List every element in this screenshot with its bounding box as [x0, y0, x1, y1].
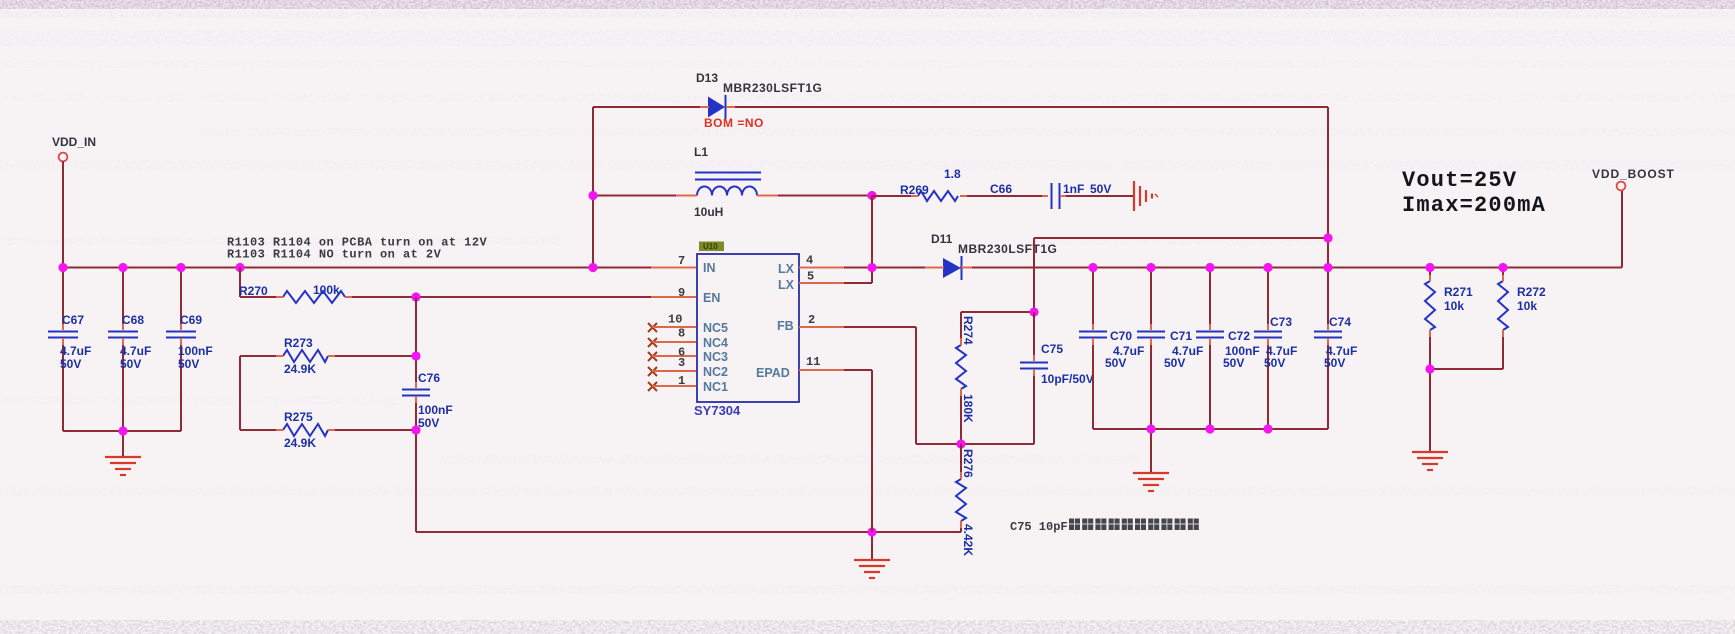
- svg-text:EN: EN: [703, 291, 720, 305]
- node main-C69: [176, 263, 185, 272]
- svg-text:VDD_IN: VDD_IN: [52, 135, 96, 149]
- svg-text:NC4: NC4: [703, 336, 728, 350]
- wire cap bank ground stem: [1150, 429, 1152, 473]
- svg-text:50V: 50V: [60, 357, 81, 371]
- wire LX pin4 main: [799, 267, 945, 269]
- node bottom bus EPAD: [867, 527, 876, 536]
- svg-text:MBR230LSFT1G: MBR230LSFT1G: [958, 242, 1057, 256]
- diode D13: [696, 71, 822, 119]
- capacitor C67: [48, 313, 91, 371]
- svg-text:Vout=25V: Vout=25V: [1402, 168, 1517, 193]
- wire VDD_BOOST stub: [1621, 190, 1623, 268]
- capacitor C71: [1137, 267, 1203, 429]
- svg-text:C71: C71: [1170, 329, 1192, 343]
- svg-text:R1103 R1104 NO turn on at 2V: R1103 R1104 NO turn on at 2V: [227, 248, 442, 262]
- wire C67 lower: [62, 338, 64, 431]
- text note C75: [1010, 519, 1199, 535]
- wire C69 lower: [180, 338, 182, 431]
- resistor R271: [1425, 267, 1473, 369]
- svg-text:NC2: NC2: [703, 365, 728, 379]
- svg-text:50V: 50V: [1324, 356, 1345, 370]
- svg-text:C73: C73: [1270, 315, 1292, 329]
- wire C68 lower: [122, 338, 124, 431]
- capacitor C74: [1314, 267, 1357, 429]
- resistor R273: [240, 336, 416, 376]
- wire FB tap vertical: [1033, 238, 1035, 312]
- svg-text:BOM =NO: BOM =NO: [704, 116, 764, 130]
- svg-text:7: 7: [678, 254, 685, 268]
- text Vout Imax: [1402, 168, 1546, 218]
- pin stub IN: [651, 267, 696, 269]
- node EN-R270: [411, 292, 420, 301]
- capacitor C68: [108, 313, 151, 371]
- svg-text:4.7uF: 4.7uF: [60, 344, 91, 358]
- node bypass-main left: [588, 263, 597, 272]
- svg-text:50V: 50V: [1090, 182, 1111, 196]
- pin 10 NC5: [648, 313, 696, 333]
- wire R270 stub down: [239, 267, 241, 297]
- wire input cap ground bus: [63, 430, 181, 432]
- text note R1103: [227, 236, 487, 262]
- svg-text:100nF: 100nF: [178, 344, 213, 358]
- wire top bypass right vertical: [1327, 107, 1329, 267]
- wire L1 right: [757, 195, 872, 197]
- node main C71: [1146, 263, 1155, 272]
- wire FB divider vertical: [415, 297, 417, 532]
- pin stub EN: [651, 296, 696, 298]
- ground R271: [1412, 452, 1448, 470]
- svg-text:NC1: NC1: [703, 380, 728, 394]
- svg-text:NC5: NC5: [703, 321, 728, 335]
- port VDD_IN: [52, 135, 96, 161]
- svg-text:C75: C75: [1041, 342, 1063, 356]
- svg-text:D11: D11: [931, 232, 953, 246]
- svg-text:MBR230LSFT1G: MBR230LSFT1G: [723, 81, 822, 95]
- svg-text:VDD_BOOST: VDD_BOOST: [1592, 167, 1675, 181]
- node main R272: [1498, 263, 1507, 272]
- wire top bypass left vertical: [592, 107, 594, 267]
- wire EN net: [416, 296, 696, 298]
- svg-text:Imax=200mA: Imax=200mA: [1402, 193, 1546, 218]
- svg-text:C70: C70: [1110, 329, 1132, 343]
- wire L1 left: [593, 195, 697, 197]
- node FB tap right: [1323, 233, 1332, 242]
- wire EPAD pin net: [799, 370, 872, 532]
- svg-text:C67: C67: [62, 313, 84, 327]
- op-amp U10 IC SY7304: [694, 242, 799, 419]
- node main R271: [1425, 263, 1434, 272]
- node main C73: [1263, 263, 1272, 272]
- svg-text:C68: C68: [122, 313, 144, 327]
- node main C72: [1205, 263, 1214, 272]
- pin 1 NC1: [648, 374, 696, 391]
- node main-C68: [118, 263, 127, 272]
- svg-text:LX: LX: [778, 278, 795, 292]
- capacitor C66: [990, 182, 1111, 209]
- capacitor C70: [1079, 267, 1144, 429]
- node FB junction: [956, 439, 965, 448]
- capacitor C72: [1196, 267, 1260, 429]
- svg-text:3: 3: [678, 356, 685, 370]
- svg-text:C72: C72: [1228, 329, 1250, 343]
- capacitor C75: [1020, 312, 1094, 444]
- diode D11: [925, 232, 1057, 280]
- svg-text:50V: 50V: [1164, 356, 1185, 370]
- node input bus gnd: [118, 426, 127, 435]
- ground EPAD: [854, 560, 890, 578]
- svg-text:C69: C69: [180, 313, 202, 327]
- node bus C71: [1146, 424, 1155, 433]
- ground input caps: [105, 457, 141, 475]
- svg-text:C76: C76: [418, 371, 440, 385]
- svg-text:FB: FB: [777, 319, 794, 333]
- node R274 top: [1029, 307, 1038, 316]
- capacitor C73: [1254, 267, 1297, 429]
- node R bus: [1425, 364, 1434, 373]
- svg-text:50V: 50V: [178, 357, 199, 371]
- inductor L1: [676, 145, 778, 219]
- pin stub LX5: [799, 282, 844, 284]
- svg-text:EPAD: EPAD: [756, 366, 790, 380]
- wire LX vertical: [871, 196, 873, 284]
- svg-text:10k: 10k: [1444, 299, 1464, 313]
- wire FB pin net: [799, 327, 1034, 444]
- svg-text:10pF/50V: 10pF/50V: [1041, 372, 1094, 386]
- capacitor C69: [166, 313, 213, 371]
- node L1 right: [867, 191, 876, 200]
- resistor R276: [956, 444, 975, 556]
- svg-text:LX: LX: [778, 262, 795, 276]
- resistor R274: [956, 312, 1034, 444]
- wire C67 branch: [62, 267, 64, 330]
- svg-text:10: 10: [668, 313, 682, 327]
- wire C66 to ground: [1060, 195, 1133, 197]
- svg-text:180K: 180K: [961, 394, 975, 423]
- svg-text:U10: U10: [703, 242, 718, 251]
- wire C69 branch: [180, 267, 182, 330]
- svg-text:4.7uF: 4.7uF: [120, 344, 151, 358]
- resistor R269: [872, 167, 1048, 201]
- svg-text:C75 10pF: C75 10pF: [1010, 520, 1068, 534]
- svg-text:2: 2: [808, 313, 815, 327]
- wire bottom ground bus: [416, 531, 961, 533]
- wire C68 branch: [122, 267, 124, 330]
- node R273 right: [411, 351, 420, 360]
- svg-text:R276: R276: [961, 449, 975, 478]
- svg-text:50V: 50V: [120, 357, 141, 371]
- wire LX pin5: [799, 282, 872, 284]
- svg-text:R272: R272: [1517, 285, 1546, 299]
- svg-text:50V: 50V: [1105, 356, 1126, 370]
- capacitor C76: [402, 371, 453, 430]
- svg-text:R273: R273: [284, 336, 313, 350]
- wire output bus: [960, 267, 1622, 269]
- pin stub FB: [799, 326, 844, 328]
- wire top bypass rail: [593, 106, 1328, 108]
- wire R273/R275 left vertical: [239, 356, 241, 430]
- svg-text:C74: C74: [1329, 315, 1351, 329]
- svg-text:SY7304: SY7304: [694, 403, 741, 418]
- node R275 right: [411, 425, 420, 434]
- svg-text:24.9K: 24.9K: [284, 362, 316, 376]
- resistor R272: [1498, 267, 1546, 369]
- svg-text:100k: 100k: [313, 283, 340, 297]
- node main C70: [1088, 263, 1097, 272]
- svg-text:50V: 50V: [1264, 356, 1285, 370]
- wire cap bank ground bus: [1093, 428, 1328, 430]
- node bus C72: [1205, 424, 1214, 433]
- resistor R275: [240, 410, 416, 450]
- svg-text:10k: 10k: [1517, 299, 1537, 313]
- pin 8 NC4: [648, 327, 696, 348]
- wire R ground stem: [1429, 369, 1431, 452]
- node main C74: [1323, 263, 1332, 272]
- node L1 left: [588, 191, 597, 200]
- node LX main: [867, 263, 876, 272]
- svg-text:L1: L1: [694, 145, 708, 159]
- svg-text:100nF: 100nF: [418, 403, 453, 417]
- svg-text:5: 5: [807, 270, 814, 284]
- ground C66 sideways: [1134, 181, 1158, 211]
- svg-text:1.8: 1.8: [944, 167, 961, 181]
- wire ground stem input: [122, 431, 124, 457]
- svg-text:11: 11: [806, 355, 820, 369]
- wire main input bus: [62, 267, 696, 269]
- ground cap bank: [1133, 473, 1169, 491]
- svg-text:IN: IN: [703, 261, 716, 275]
- svg-text:D13: D13: [696, 71, 718, 85]
- wire EPAD ground stem: [871, 532, 873, 560]
- pin stub EPAD: [799, 369, 844, 371]
- svg-text:8: 8: [678, 327, 685, 341]
- pin stub LX4: [799, 267, 844, 269]
- svg-text:R275: R275: [284, 410, 313, 424]
- svg-text:4: 4: [806, 254, 813, 268]
- wire R271 R272 bus: [1430, 368, 1503, 370]
- resistor R270: [239, 283, 416, 303]
- wire FB tap rail: [1034, 237, 1328, 239]
- svg-text:50V: 50V: [1223, 356, 1244, 370]
- pin 3 NC2: [648, 356, 696, 376]
- svg-text:R269: R269: [900, 183, 929, 197]
- svg-text:R271: R271: [1444, 285, 1473, 299]
- svg-text:1nF: 1nF: [1063, 182, 1084, 196]
- svg-text:NC3: NC3: [703, 350, 728, 364]
- svg-text:R270: R270: [239, 284, 268, 298]
- svg-text:24.9K: 24.9K: [284, 436, 316, 450]
- svg-text:4.42K: 4.42K: [961, 524, 975, 556]
- svg-text:C66: C66: [990, 182, 1012, 196]
- node main-C67: [58, 263, 67, 272]
- node main-R270: [235, 263, 244, 272]
- port VDD_BOOST: [1592, 167, 1675, 190]
- svg-text:50V: 50V: [418, 416, 439, 430]
- wire VDD_IN stub: [62, 161, 64, 267]
- node bus C73: [1263, 424, 1272, 433]
- svg-text:1: 1: [678, 374, 685, 388]
- svg-text:10uH: 10uH: [694, 205, 723, 219]
- pin 6 NC3: [648, 346, 696, 362]
- svg-text:R274: R274: [961, 316, 975, 345]
